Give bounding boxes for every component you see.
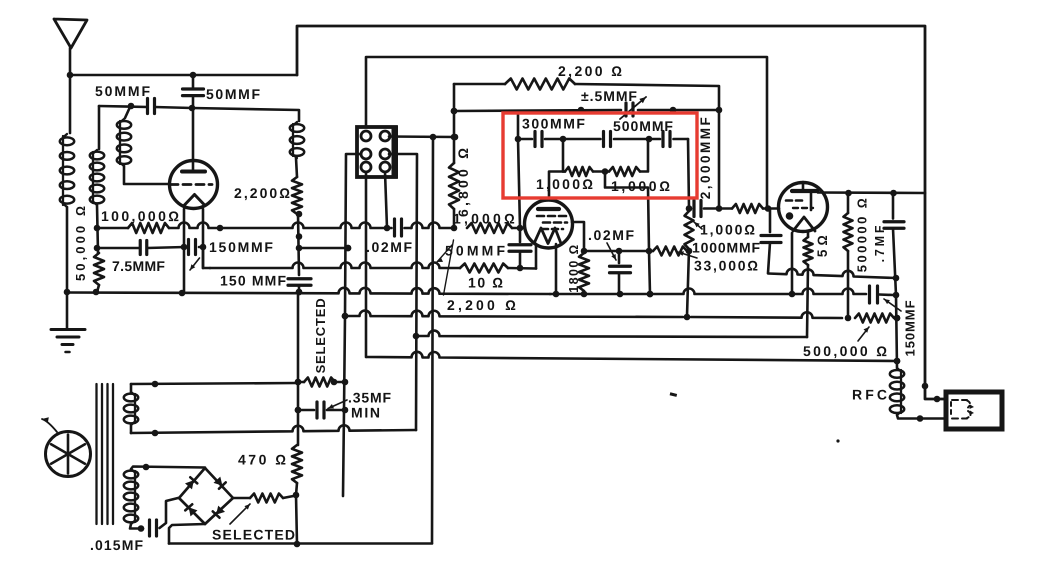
svg-text:150MMF: 150MMF — [209, 239, 275, 255]
wire tube2 cathode right lead — [555, 244, 558, 294]
wire socket pin3 column x346 — [342, 154, 361, 496]
svg-text:.015MF: .015MF — [90, 537, 144, 553]
wire row y357 — [367, 352, 900, 364]
svg-text:SELECTED: SELECTED — [212, 527, 296, 543]
wire bottom rail — [169, 542, 432, 545]
wire 2200 top to right riser — [575, 84, 722, 212]
wire 10ohm to cathode — [508, 265, 536, 272]
svg-text:±.5MMF: ±.5MMF — [581, 88, 638, 104]
label 500000 ohm vertical — [855, 196, 870, 272]
wire socket pin2 to 6800 column — [389, 134, 458, 141]
wire coil3 to tube1 grid — [124, 166, 170, 184]
wire 470 to rectifier junction — [293, 483, 301, 547]
svg-text:1,000Ω: 1,000Ω — [611, 178, 673, 194]
label .02MF second — [588, 227, 636, 260]
wire long column x433 — [432, 137, 433, 543]
capacitor 300MMF — [535, 132, 542, 147]
tube V1 cathode — [184, 195, 205, 206]
wire coil2 bottom lead — [97, 205, 98, 253]
wire coil2 top lead — [98, 106, 101, 149]
svg-text:50MMF: 50MMF — [95, 83, 152, 99]
wire row y336 — [413, 331, 807, 340]
bridge rectifier diamond — [179, 468, 233, 524]
wire row y268 — [203, 247, 460, 268]
svg-text:470 Ω: 470 Ω — [238, 452, 289, 468]
label 150 MMF bypass — [220, 273, 287, 289]
label 6,800 ohm — [455, 145, 471, 217]
resistor 5 ohm — [804, 231, 813, 337]
wire y275 row — [768, 269, 899, 281]
transformer bottom winding — [124, 469, 138, 524]
wire top winding lower lead — [131, 425, 158, 436]
svg-text:500MMF: 500MMF — [613, 118, 674, 134]
wire coil1 top lead — [69, 75, 72, 133]
svg-text:2,200 Ω: 2,200 Ω — [558, 63, 624, 79]
label 1,000 ohm grid — [453, 211, 518, 227]
capacitor .02MF (second) — [610, 251, 631, 294]
resistor 33,000 ohm — [653, 247, 689, 256]
svg-text:6,800 Ω: 6,800 Ω — [455, 145, 471, 217]
tube V2 grid dashes row1 — [537, 215, 567, 218]
svg-text:7.5MMF: 7.5MMF — [112, 258, 165, 274]
label 2,200 ohm plate resistor V1 — [234, 185, 292, 201]
svg-text:SELECTED: SELECTED — [313, 298, 328, 374]
svg-text:.7MF: .7MF — [873, 223, 887, 263]
wire socket pin5 column x365 — [365, 172, 368, 357]
tube V2 envelope — [525, 200, 573, 248]
wire tube2 cathode left lead — [535, 244, 538, 269]
phones output jack box — [946, 392, 1002, 429]
wire tube2 plate to resistor row — [549, 172, 565, 197]
label .35MF MIN — [328, 390, 392, 421]
label SELECTED (vertical) — [313, 298, 328, 374]
capacitor .02MF (first) — [395, 219, 402, 236]
capacitor 2,000MMF — [686, 201, 719, 217]
capacitor 150MMF output coupling — [870, 286, 878, 303]
wire spine x298 upper — [296, 211, 303, 296]
wire bridge bottom to rail — [169, 524, 205, 544]
label 150MMF output — [884, 299, 918, 356]
wire RFC to phones — [897, 415, 946, 422]
inductor RFC choke — [890, 368, 904, 415]
resistor 100,000 ohm — [128, 223, 169, 233]
wire top border B+ rail — [297, 26, 946, 399]
node phone output junctions — [922, 383, 941, 403]
resistor 10 ohm — [460, 264, 508, 273]
svg-text:1800 Ω: 1800 Ω — [567, 243, 581, 292]
bridge diode top-right — [214, 477, 226, 489]
inductor L2 secondary coil — [90, 150, 104, 205]
tube V2 plate bar — [538, 207, 559, 211]
resistor SELECTED (output) — [250, 494, 296, 503]
capacitor 150MMF bypass — [288, 279, 311, 292]
wire center tap of 1k pair — [605, 172, 653, 298]
capacitor 500MMF — [604, 132, 611, 147]
wire 6800 column upper — [451, 84, 458, 163]
wire row y228 left — [97, 227, 128, 230]
resistor 470 ohm — [292, 445, 302, 483]
label 10 ohm — [468, 275, 505, 291]
svg-text:5 Ω: 5 Ω — [815, 235, 830, 257]
wire coil3 top lead — [125, 107, 130, 118]
svg-text:.02MF: .02MF — [588, 227, 636, 243]
inductor plate choke coil (x296) — [290, 122, 304, 177]
wire row y228 tube1 to socket area — [94, 223, 391, 232]
wire right rail x897 — [894, 295, 901, 368]
svg-text:50,000 Ω: 50,000 Ω — [73, 203, 88, 281]
wire 6800 bottom lead — [453, 209, 456, 228]
bridge diode bottom-right — [213, 506, 225, 518]
capacitor 150MMF grid — [189, 240, 196, 255]
label 1000MMF — [692, 240, 761, 256]
socket pin 5 — [361, 162, 371, 172]
tube V2 grid dashes row2 — [543, 221, 567, 224]
capacitor .35MF — [295, 402, 349, 418]
label RFC — [852, 387, 890, 403]
ground — [51, 292, 85, 352]
tube V3 inner bar — [810, 193, 813, 210]
label SELECTED output — [212, 504, 296, 543]
svg-text:2,200 Ω: 2,200 Ω — [447, 297, 519, 313]
label .7MF — [873, 223, 887, 263]
resistor 6,800 ohm — [449, 163, 459, 209]
svg-text:150MMF: 150MMF — [903, 300, 918, 357]
label 1,000 ohm vertical — [694, 222, 757, 238]
svg-text:33,000Ω: 33,000Ω — [694, 258, 760, 274]
label 150MMF grid cap — [190, 239, 275, 270]
wire row y247 — [94, 233, 352, 251]
label .02MF first — [366, 239, 414, 255]
wire coil1 bottom lead — [66, 207, 69, 292]
wire spine x298 lower — [295, 292, 302, 445]
wire row y251 — [584, 248, 692, 255]
label 50MMF vertical cap — [206, 86, 262, 102]
socket pin 6 — [380, 162, 390, 172]
label 2,200 ohm top — [558, 63, 624, 79]
wire socket pin1 riser to B wire — [366, 57, 767, 209]
transformer top winding — [124, 392, 138, 425]
tube V2 cathode — [534, 228, 561, 244]
tube V3 cathode — [793, 217, 815, 231]
capacitor 50MMF (vertical, antenna) — [183, 72, 204, 170]
svg-text:.35MF: .35MF — [348, 390, 392, 406]
tube V3 grid dashes — [786, 201, 813, 209]
resistor 1,000 ohm grid V3 — [719, 204, 779, 213]
wire bottom winding bottom lead — [130, 524, 144, 532]
label 5 ohm — [815, 235, 830, 257]
wire tube1 lead x184 — [183, 209, 186, 292]
resistor 1,000 ohm pair — [563, 139, 648, 176]
label 500MMF — [613, 118, 674, 134]
capacitor 50MMF (horizontal) — [148, 99, 155, 114]
inductor L3 grid coil — [117, 119, 131, 166]
label .015MF — [90, 537, 144, 553]
inductor L1 antenna coil — [60, 134, 74, 207]
ink speck 2 — [836, 439, 839, 442]
wire bottom winding top lead — [131, 464, 205, 471]
label 470 ohm — [238, 452, 289, 468]
label 1,000 ohm right — [611, 178, 673, 194]
svg-text:1,000Ω: 1,000Ω — [700, 222, 757, 238]
tube V1 grid dashes — [170, 183, 212, 186]
svg-text:100,000Ω: 100,000Ω — [101, 208, 181, 224]
resistor 2,200 ohm (vertical) — [292, 177, 302, 214]
tube V3 envelope — [779, 183, 828, 232]
label 300MMF — [522, 116, 587, 132]
wire top 2200 row — [454, 83, 505, 86]
label 33,000 ohm — [678, 251, 760, 273]
wire grid row y106 — [99, 103, 299, 121]
resistor 1,000 ohm (vertical) — [685, 209, 694, 317]
wire row y316 (2200 ohm feed) — [342, 311, 852, 322]
label plus-minus .5MMF — [581, 88, 638, 104]
resistor 2,200 ohm (top) — [505, 79, 575, 90]
label 2,200 ohm feed — [437, 240, 519, 313]
wire top winding upper lead — [131, 379, 301, 392]
alternator wheel — [46, 432, 91, 477]
wire tube2 plate lead right — [572, 222, 587, 254]
svg-text:MIN: MIN — [351, 405, 382, 421]
label 50,000 ohm — [73, 203, 88, 281]
bridge diode bottom-left — [185, 504, 197, 516]
svg-text:RFC: RFC — [852, 387, 890, 403]
svg-text:1000MMF: 1000MMF — [692, 240, 761, 256]
svg-text:150 MMF: 150 MMF — [220, 273, 287, 289]
tube V3 cathode dot — [786, 212, 794, 220]
label 100,000 ohm — [101, 208, 181, 224]
resistor 1800 ohm — [579, 253, 589, 294]
resistor 500000 ohm (vertical) — [844, 193, 853, 318]
wire row y228 socket to 6800 — [387, 223, 457, 232]
wire 1000ohm to grid — [512, 225, 525, 232]
socket pin 2 — [380, 131, 390, 141]
resistor SELECTED — [298, 378, 348, 387]
wire antenna to top border riser — [67, 72, 297, 79]
phones jack inner plug symbol — [951, 400, 974, 419]
capacitor .015MF — [150, 520, 157, 536]
capacitor .5MMF trimmer — [620, 97, 646, 119]
label 50MMF cathode — [445, 243, 508, 259]
wire cap to bridge left corner — [160, 498, 179, 528]
wire bridge output row — [233, 497, 250, 500]
label 2,000MMF — [698, 115, 713, 200]
wire socket pin4 column x417 — [131, 154, 417, 433]
label 50MMF horizontal cap — [95, 83, 152, 99]
alternator rotation arrow — [42, 417, 57, 432]
label 1800 ohm — [567, 243, 581, 292]
socket pin 4 — [380, 149, 390, 159]
svg-text:1,000Ω: 1,000Ω — [536, 176, 595, 192]
wire tube3 plate row y193 — [818, 190, 925, 197]
svg-text:10 Ω: 10 Ω — [468, 275, 505, 291]
capacitor 7.5MMF — [140, 241, 147, 255]
svg-text:2,000MMF: 2,000MMF — [698, 115, 713, 200]
antenna — [54, 19, 87, 75]
label 500,000 ohm — [803, 327, 889, 359]
transformer core — [97, 384, 114, 524]
svg-text:50MMF: 50MMF — [206, 86, 262, 102]
resistor 500,000 ohm (horizontal) — [855, 314, 900, 323]
tube V2 grid dashes row3 — [542, 228, 563, 231]
tube V1 envelope — [170, 161, 218, 209]
wire trimmer row y110 — [451, 107, 718, 115]
svg-text:2,200Ω: 2,200Ω — [234, 185, 292, 201]
tube V1 plate bar — [182, 170, 205, 174]
capacitor .7MF — [884, 193, 904, 295]
svg-text:500,000 Ω: 500,000 Ω — [803, 343, 889, 359]
label 7.5MMF — [112, 258, 165, 274]
wire tube3 heater lead — [791, 233, 794, 294]
ink speck 1 — [670, 392, 678, 397]
svg-text:500000 Ω: 500000 Ω — [855, 196, 870, 272]
capacitor 50MMF cathode — [509, 228, 531, 268]
wire red box left branch — [515, 111, 522, 228]
socket 6-pin connector body — [357, 126, 398, 178]
tube V3 plate bar — [792, 182, 817, 191]
label 1,000 ohm left — [536, 176, 595, 192]
capacitor 1000MMF — [761, 209, 781, 274]
resistor 50,000 ohm — [94, 253, 104, 292]
resistor 1,000 ohm grid V2 — [467, 223, 512, 233]
socket pin 3 — [361, 149, 371, 159]
capacitor coupling (right of 500MMF) — [663, 132, 670, 147]
socket pin 1 — [361, 131, 371, 141]
red highlight rectangle — [503, 113, 697, 198]
svg-text:300MMF: 300MMF — [522, 116, 587, 132]
svg-text:50MMF: 50MMF — [445, 243, 508, 259]
svg-text:.02MF: .02MF — [366, 239, 414, 255]
wire ground bus y292 — [64, 288, 900, 298]
wire socket pin6 column x387 — [385, 172, 387, 228]
wire capacitor row y139 — [518, 136, 689, 209]
wire tube1 lead x203 — [202, 209, 205, 268]
bridge diode top-left — [185, 477, 197, 489]
